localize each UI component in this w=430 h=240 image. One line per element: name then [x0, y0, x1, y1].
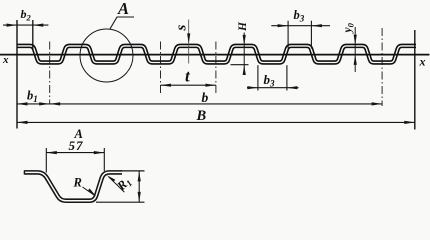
svg-text:R1: R1 — [114, 174, 135, 195]
arrow b3 bottom right — [287, 86, 298, 89]
centerline trough 7 — [381, 28, 383, 106]
extension line b3 bottom left — [257, 65, 259, 90]
arrow y0 top — [354, 35, 357, 45]
svg-text:b1: b1 — [27, 89, 38, 105]
centerline trough 4 — [215, 42, 217, 94]
centerline trough 3 — [160, 42, 162, 94]
dimension line b3 bottom — [247, 87, 299, 89]
svg-text:x: x — [2, 54, 9, 66]
extension line 57 left — [45, 148, 47, 173]
extension line b2 right — [32, 20, 34, 50]
svg-text:R: R — [73, 176, 82, 190]
arrow b2 right — [33, 24, 44, 27]
extension line detail height top — [120, 170, 145, 172]
leader line R — [83, 187, 95, 195]
leader line R1 — [109, 177, 125, 192]
leader line to label A — [110, 17, 134, 29]
arrow R — [88, 188, 96, 196]
extension line b3 bottom right — [286, 65, 288, 90]
arrow b3 bottom left — [247, 86, 258, 89]
arrow detail height up — [138, 172, 141, 182]
H bottom level line — [231, 64, 249, 66]
svg-text:y0: y0 — [342, 22, 355, 34]
detail A enlarged trough profile (double contour) — [24, 172, 122, 200]
dimension line y0 — [354, 27, 356, 72]
svg-text:t: t — [185, 67, 191, 86]
arrow y0 bottom — [354, 55, 357, 65]
svg-text:b: b — [202, 90, 209, 105]
arrow t left — [161, 84, 172, 87]
neutral axis line x-x — [0, 54, 430, 56]
arrow B left — [17, 121, 28, 124]
arrow b1 right — [39, 102, 50, 105]
dimension line 57 — [46, 152, 104, 154]
arrow R1 — [107, 175, 115, 182]
svg-text:x: x — [419, 55, 426, 69]
svg-text:b2: b2 — [21, 7, 32, 23]
arrow b left — [50, 102, 61, 105]
arrow b3 top left — [278, 24, 289, 27]
dimension line b2 — [3, 24, 48, 26]
dimension line b1 — [17, 103, 50, 105]
svg-text:H: H — [237, 21, 249, 32]
dimension line s — [188, 20, 190, 64]
arrow s down — [187, 33, 190, 43]
arrow b3 top right — [311, 24, 322, 27]
arrow t right — [205, 84, 216, 87]
extension line right sheet edge — [414, 30, 416, 130]
arrow 57 left — [46, 151, 57, 154]
arrow b2 left — [7, 24, 18, 27]
extension line b3 top left — [287, 21, 289, 49]
arrow 57 right — [94, 151, 105, 154]
extension line b3 top right — [310, 21, 312, 49]
profiled sheet cross-section outline (double contour) — [17, 46, 416, 63]
svg-text:s: s — [174, 25, 190, 32]
extension line left sheet edge — [16, 20, 18, 129]
detail callout circle A — [80, 29, 133, 82]
extension line detail height bottom — [96, 201, 145, 203]
arrow b1 left — [17, 102, 28, 105]
svg-text:57: 57 — [69, 138, 84, 153]
arrow H bottom — [243, 65, 246, 75]
dimension line t (pitch) — [161, 84, 216, 86]
detail profile left flange end closure — [23, 170, 25, 174]
dimension line H — [243, 33, 245, 72]
dimension line b3 top — [271, 25, 330, 27]
svg-text:b3: b3 — [264, 72, 276, 89]
svg-text:B: B — [196, 108, 207, 124]
svg-text:b3: b3 — [294, 8, 305, 24]
arrow B right — [404, 121, 415, 124]
dimension line detail height — [138, 171, 140, 202]
extension line 57 right — [103, 148, 105, 171]
arrow detail height down — [138, 192, 141, 202]
dimension line b — [50, 103, 382, 105]
arrow H top — [243, 35, 246, 45]
centerline trough 1 — [49, 42, 51, 105]
arrow b right — [372, 102, 383, 105]
svg-text:A: A — [117, 0, 129, 18]
dimension line B — [17, 121, 415, 123]
